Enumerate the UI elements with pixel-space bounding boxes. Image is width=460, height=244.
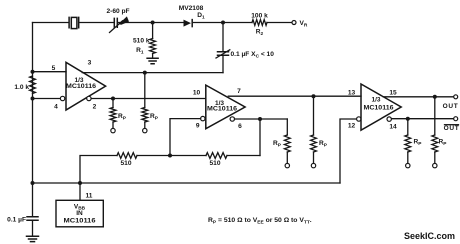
svg-text:3: 3 — [88, 59, 92, 66]
capacitor C2 0.1uF (series, vertical) — [222, 23, 224, 52]
svg-text:2: 2 — [93, 104, 97, 111]
svg-text:MC10116: MC10116 — [66, 83, 96, 90]
terminal VR — [292, 21, 296, 25]
node: pin7 wire @ Rp4 — [312, 94, 316, 98]
svg-text:5: 5 — [52, 65, 56, 72]
svg-text:4: 4 — [54, 104, 58, 111]
node: top wire @ R1 — [151, 21, 155, 25]
terminal OUT — [454, 95, 458, 99]
wire: feedback/bias row with 510s — [227, 155, 260, 157]
svg-text:1.0 k: 1.0 k — [14, 84, 29, 91]
wire: pin 11 drop — [79, 183, 81, 200]
svg-text:510 k: 510 k — [133, 38, 150, 45]
svg-text:11: 11 — [86, 192, 93, 199]
resistor R2 100k (on top wire) — [252, 20, 267, 26]
node: pin3 wire @ Rp2 — [143, 71, 147, 75]
wire: U1 pin3 output to C2 — [82, 72, 223, 74]
wire: pin 12 from VBB rail — [340, 119, 357, 183]
node: pin2 wire @ Rp1 — [111, 97, 115, 101]
svg-text:MC10116: MC10116 — [364, 104, 394, 111]
wire: feedback drop from pin6 node — [259, 119, 261, 156]
svg-text:MC10116: MC10116 — [64, 218, 96, 225]
svg-text:SeekIC.com: SeekIC.com — [404, 231, 455, 241]
wire: top oscillator net — [33, 22, 292, 24]
svg-text:15: 15 — [389, 89, 397, 96]
op-amp U3 1/3 MC10116 — [361, 84, 401, 130]
wire: pin6 to Rp3 — [235, 118, 288, 120]
wire: U2 pin7 to U3 pin13 — [228, 95, 361, 97]
pin 2 bubble (U1 inverted output) — [87, 96, 91, 100]
node: pin15 wire @ Rp6 — [433, 95, 437, 99]
svg-text:14: 14 — [389, 124, 397, 131]
pin 4 bubble — [60, 96, 64, 100]
pin 6 bubble (U2 inverted output) — [230, 117, 234, 121]
wire: pin 9 to feedback node — [170, 119, 201, 156]
ground (bypass cap) — [27, 236, 39, 241]
resistor Rp4 — [313, 96, 315, 135]
svg-text:1/3: 1/3 — [371, 96, 380, 103]
pin 14 bubble (U3 inverted output) — [387, 117, 391, 121]
wire: VBB rail — [33, 182, 341, 184]
svg-text:510: 510 — [120, 160, 131, 167]
variable capacitor 2-60 pF — [110, 16, 130, 32]
svg-text:13: 13 — [348, 89, 356, 96]
wire: left vertical rail — [32, 23, 34, 217]
svg-text:510: 510 — [209, 160, 220, 167]
svg-text:7: 7 — [237, 88, 241, 95]
node: left rail @ pin4 — [31, 97, 35, 101]
svg-text:6: 6 — [238, 123, 242, 130]
resistor Rp3 — [286, 119, 288, 135]
capacitor 0.1uF (left rail bypass) — [27, 217, 38, 221]
svg-text:OUT: OUT — [443, 103, 459, 110]
ground (R1) — [147, 58, 158, 64]
varactor diode D1 MV2108 — [184, 20, 193, 27]
wire: pin 4 input — [33, 98, 61, 100]
wire: pin 5 input — [33, 71, 67, 73]
resistor Rp1 — [112, 99, 114, 108]
pin 12 bubble — [357, 117, 361, 121]
op-amp U1 1/3 MC10116 — [66, 62, 106, 110]
VBB IN MC10116 box — [56, 200, 103, 227]
node: pin14 wire @ Rp5 — [406, 117, 410, 121]
svg-text:10: 10 — [193, 90, 201, 97]
node: pin6 wire @ feedback — [258, 117, 262, 121]
svg-text:2-60 pF: 2-60 pF — [106, 8, 129, 15]
svg-text:IN: IN — [76, 210, 83, 217]
node: left rail @ pin5 — [31, 70, 35, 74]
wire: U1 pin2 to U2 pin10 — [91, 98, 206, 100]
node: 510/510 @ pin9 branch — [168, 154, 172, 158]
terminal OUTbar — [454, 117, 458, 121]
resistor R4 510 — [117, 153, 137, 159]
svg-text:MC10116: MC10116 — [207, 106, 237, 113]
node: top wire @ C2 branch — [221, 21, 225, 25]
wire: U3 pin15 to OUT — [383, 96, 453, 98]
resistor R3 1.0k (on left rail) — [30, 76, 36, 94]
node: rail @ pin11 — [78, 181, 82, 185]
crystal Y1 — [69, 17, 79, 28]
svg-text:MV2108: MV2108 — [179, 5, 204, 12]
wire: U3 pin14 to OUTbar — [391, 118, 453, 120]
op-amp U2 1/3 MC10116 — [206, 85, 245, 129]
pin 9 bubble (U2 inverting input) — [201, 116, 205, 120]
resistor Rp6 — [434, 97, 436, 135]
node: rail @ left rail — [31, 181, 35, 185]
resistor R5 510 — [206, 153, 227, 159]
svg-text:9: 9 — [196, 122, 200, 129]
resistor Rp2 (from pin3 wire) — [144, 73, 146, 108]
svg-text:0.1 µF: 0.1 µF — [7, 216, 26, 223]
svg-text:100 k: 100 k — [251, 12, 268, 19]
svg-text:12: 12 — [348, 122, 356, 129]
resistor Rp5 — [407, 119, 409, 135]
resistor R1 510k (vertical) — [152, 23, 154, 39]
svg-text:OUT: OUT — [444, 125, 460, 132]
